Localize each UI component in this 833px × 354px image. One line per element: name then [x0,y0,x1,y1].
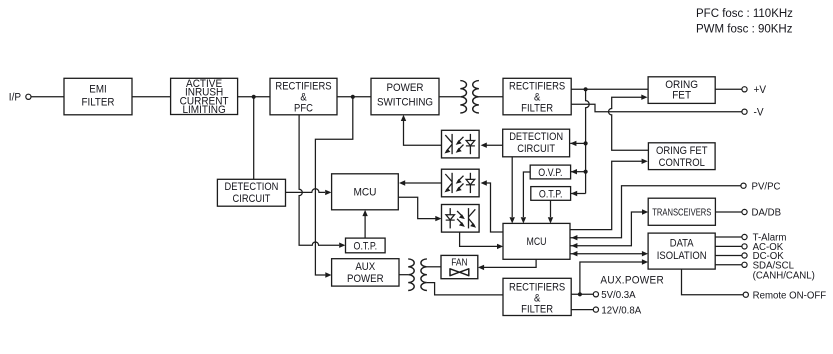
wire MCU U2 to PV/PC terminal [570,186,741,241]
optocoupler ISO2 (secondary MCU to primary MCU) [442,169,480,197]
wire MCU2 to ISO2 [481,180,503,232]
node junction A (to detection circuit) [252,95,256,99]
wire aux rectifier to 12V output [571,309,593,311]
terminal AC-OK [742,242,784,253]
block EMI FILTER [64,78,132,115]
svg-text:PWM fosc : 90KHz: PWM fosc : 90KHz [696,24,793,36]
transformer T1 secondary winding [473,81,479,113]
svg-text:DETECTION: DETECTION [509,131,563,143]
wire ISO1 to POWER SWITCHING (feedback) [401,115,442,145]
block RECTIFIERS &amp; FILTER (main output) [503,78,571,115]
wire I/P to EMI FILTER [31,96,64,98]
terminal I/P input [9,92,31,103]
terminal Remote ON-OFF [743,290,826,301]
block POWER SWITCHING [371,78,439,115]
node sense junction at OVP [584,170,588,174]
block AUX POWER [332,259,399,286]
wire +V rail RECTIFIERS-FILTER to ORING FET [571,88,648,90]
wire TRANSCEIVERS to DA/DB terminal [715,211,742,213]
wire ORING FET CONTROL to ORING FET gate [609,95,649,151]
wire OVP to MCU U2 [521,172,531,224]
svg-text:12V/0.8A: 12V/0.8A [601,305,641,316]
svg-text:FAN: FAN [451,257,467,268]
wire EMI FILTER to inrush limiter [132,96,171,98]
svg-text:PV/PC: PV/PC [752,181,781,192]
block DETECTION CIRCUIT (secondary) [503,129,570,157]
block ORING FET [648,77,715,104]
svg-text:AUX.POWER: AUX.POWER [600,274,664,287]
svg-text:O.T.P.: O.T.P. [539,189,563,201]
block OTP (primary) [346,238,386,253]
svg-text:DETECTION: DETECTION [224,181,278,193]
block OVP [530,165,570,179]
svg-text:FILTER: FILTER [521,304,553,316]
wire DATA ISOLATION to DC-OK [715,255,742,257]
block TRANSCEIVERS [648,198,715,225]
wire junction B to AUX POWER [315,97,352,278]
block OTP (secondary) [531,187,571,201]
wire DETECTION CIRCUIT (secondary) to MCU U2 [510,157,515,224]
svg-text:CONTROL: CONTROL [659,158,705,170]
wire sense branch into OVP [571,169,586,174]
terminal +V output [742,85,766,96]
wire sense branch into DETECTION CIRCUIT (secondary) [570,141,585,146]
node sense junction at detection circuit [584,141,588,145]
wire T2 secondary to FAN [427,266,441,268]
svg-text:FILTER: FILTER [521,103,553,115]
wire junction A down to DETECTION CIRCUIT (primary) [253,97,255,180]
svg-text:(CANH/CANL): (CANH/CANL) [753,270,815,281]
block FAN [441,255,478,278]
wire +V sense line down to detection, OVP, OTP [586,89,590,193]
svg-text:MCU: MCU [526,236,546,248]
terminal SDA/SCL (CANH/CANL) [742,260,815,281]
wire inrush limiter to RECTIFIERS-PFC [238,96,270,98]
node aux 5V junction [578,292,582,296]
block RECTIFIERS &amp; FILTER (aux) [503,278,571,316]
wire detection circuit to ISO1 [481,143,503,148]
optocoupler ISO1 (power switching feedback) [442,130,480,158]
wire POWER SWITCHING to transformer T1 [439,96,460,98]
wire ISO3 to MCU2 [460,232,504,249]
svg-text:DATA: DATA [670,238,694,250]
block DETECTION CIRCUIT (primary) [217,179,285,206]
terminal PV/PC [741,181,781,192]
svg-text:O.T.P.: O.T.P. [354,241,378,253]
svg-text:PFC fosc : 110KHz: PFC fosc : 110KHz [696,8,793,20]
optocoupler ISO3 (primary MCU to secondary MCU) [442,205,480,233]
node +V sense junction [584,87,588,91]
wire AUX POWER to transformer T2 [399,274,408,276]
svg-text:SWITCHING: SWITCHING [377,97,433,109]
svg-text:AUX: AUX [355,261,375,273]
wire T2 secondary to aux rectifier [427,283,503,295]
transformer T2 secondary winding [421,259,427,291]
block ORING FET CONTROL [648,143,715,170]
node junction B (to aux power feed) [351,95,355,99]
svg-text:CIRCUIT: CIRCUIT [517,143,555,155]
svg-text:ORING FET: ORING FET [656,145,708,157]
svg-text:FET: FET [672,89,691,102]
wire AUX power rail to DATA ISOLATION [580,259,648,294]
wire DATA ISOLATION to SDA/SCL [715,264,742,266]
svg-text:LIMITING: LIMITING [182,104,225,117]
wire MCU to ORING FET CONTROL [570,159,648,230]
svg-text:I/P: I/P [9,92,21,103]
wire MCU2 to FAN [478,260,536,270]
wire MCU U2 to TRANSCEIVERS [570,209,648,248]
terminal T-Alarm [742,232,787,243]
wire -V rail [571,104,742,112]
svg-text:MCU: MCU [353,186,376,198]
svg-text:POWER: POWER [387,83,424,95]
wire MCU1 to ISO3 [398,197,441,221]
wire RECTIFIERS-PFC to OTP (primary) [299,115,345,248]
wire DATA ISOLATION to Remote ON-OFF [682,269,744,295]
wire ISO2 to MCU1 [399,180,442,185]
svg-text:DA/DB: DA/DB [752,207,782,218]
wire DATA ISOLATION to T-Alarm [715,236,742,238]
wire aux rectifier to 5V output [571,293,593,295]
wire transformer T1 to RECTIFIERS-FILTER [479,96,503,98]
svg-text:FILTER: FILTER [82,97,115,109]
svg-text:EMI: EMI [89,84,106,96]
wire RECTIFIERS-PFC to POWER SWITCHING [337,96,371,98]
terminal 5V/0.3A [593,290,636,301]
terminal DC-OK [742,251,784,262]
svg-text:TRANSCEIVERS: TRANSCEIVERS [652,206,711,217]
wire OTP (secondary) to MCU U2 [548,200,553,223]
wire sense branch into OTP (secondary) [571,191,586,196]
block DATA ISOLATION [648,233,715,269]
block MCU U2 (secondary) [503,223,570,259]
svg-text:-V: -V [754,107,764,118]
wire MCU U2 to DATA ISOLATION [570,251,648,256]
svg-text:5V/0.3A: 5V/0.3A [601,290,636,301]
block ACTIVE INRUSH CURRENT LIMITING [171,77,238,116]
wire DATA ISOLATION to AC-OK [715,245,742,247]
block MCU U1 (primary) [332,174,399,210]
terminal DA/DB [742,207,781,218]
block RECTIFIERS &amp; PFC [270,78,337,115]
svg-text:PFC: PFC [294,103,313,115]
svg-text:ISOLATION: ISOLATION [657,250,707,262]
transformer T2 primary winding [408,259,414,291]
svg-text:Remote ON-OFF: Remote ON-OFF [753,290,827,301]
wire OTP (primary) to MCU U1 [362,210,367,238]
transformer T1 primary winding [460,81,466,113]
terminal -V output [742,107,764,118]
svg-text:O.V.P.: O.V.P. [538,167,562,179]
svg-text:+V: +V [754,85,767,96]
wire ORING FET to +V terminal [715,88,742,90]
svg-text:CIRCUIT: CIRCUIT [233,193,271,205]
svg-text:POWER: POWER [347,274,384,286]
wire DETECTION CIRCUIT (primary) to MCU U1 [286,189,332,195]
terminal 12V/0.8A [593,305,641,316]
